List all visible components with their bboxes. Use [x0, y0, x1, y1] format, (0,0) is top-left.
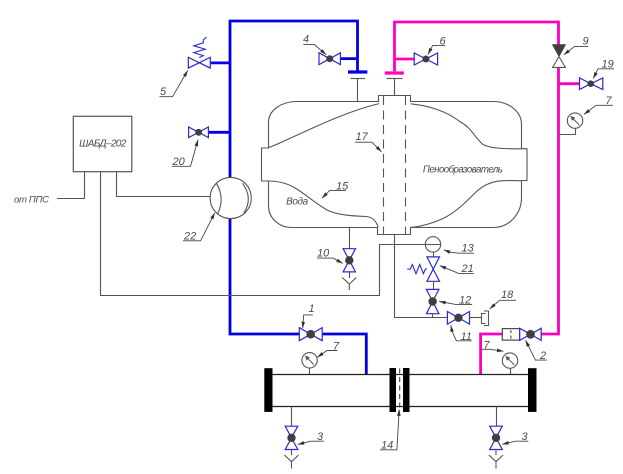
wire: tank top-left flange pipe [351, 79, 366, 102]
membrane dashed line 17 left [383, 96, 385, 234]
svg-text:13: 13 [462, 243, 475, 255]
svg-text:Вода: Вода [286, 196, 309, 207]
valve 10 (vertical ball valve) [343, 249, 355, 272]
wire: blue main water line (vertical left + top horizontal + tank inlet drop) [230, 21, 366, 375]
label 4 [303, 34, 326, 55]
bladder membrane curve 15 lower-left [269, 181, 379, 227]
valve 3 left (vertical ball valve) [285, 426, 298, 449]
wire: box right output to device 22 [117, 172, 211, 197]
wire: blue stub to valve 4 [340, 57, 357, 60]
label 13 [444, 243, 475, 255]
wire: tank top-center flange pipe [387, 79, 403, 96]
label 6 [428, 36, 447, 55]
bladder membrane curve upper-right [411, 104, 522, 149]
label 11 [451, 325, 472, 343]
manifold middle flange left [390, 368, 397, 412]
svg-text:5: 5 [160, 86, 167, 98]
bladder membrane curve 15 upper-left [268, 104, 379, 148]
tank left nozzle [262, 148, 270, 181]
valve 12 (vertical ball valve) [426, 289, 439, 313]
valve 19 (ball valve) [580, 78, 603, 90]
wire: magenta foam line (top horizontal + right vertical) [395, 22, 559, 375]
bladder membrane curve lower-right [410, 181, 521, 228]
manifold pipe bottom line [272, 406, 528, 408]
label 19 [593, 59, 614, 79]
label 5 [160, 71, 188, 99]
valve 20 (ball valve) [189, 127, 209, 138]
level indicator 13 [425, 237, 440, 252]
svg-text:от ППС: от ППС [14, 195, 49, 206]
label 20 [172, 140, 199, 168]
wire: valve 10 to drain [349, 272, 351, 278]
label 12 [439, 295, 472, 307]
svg-text:17: 17 [356, 131, 369, 143]
svg-text:1: 1 [309, 303, 315, 315]
wire: magenta stub to valve 6 [395, 58, 415, 61]
wire: tank bottom center pipe down and to valve 11 [395, 235, 448, 318]
valve 6 (ball valve) [414, 53, 437, 65]
manifold right cap [528, 368, 537, 412]
tank bottom neck [378, 227, 411, 235]
manifold middle dashed joint line [399, 369, 401, 412]
wire: valve 11 to coupling 18 [470, 317, 482, 319]
label 18 [490, 289, 516, 309]
label 14 [380, 410, 399, 452]
wire: blue stub to valve 20 [208, 131, 230, 134]
svg-text:4: 4 [303, 34, 309, 46]
hose coupling 18 [482, 311, 489, 326]
label 17 [355, 131, 382, 152]
label 10 [317, 248, 343, 264]
label 7 bottom left [317, 341, 340, 358]
wire: blue stub to valve 5 [210, 62, 230, 65]
svg-text:9: 9 [583, 36, 589, 48]
manifold pipe top line [272, 374, 528, 376]
wire: valve 21 to valve 12 [433, 281, 435, 289]
label 15 [322, 180, 349, 198]
wire + drain symbol below valve 3 left [284, 450, 298, 469]
control box ШАБД-202 [73, 116, 132, 171]
wire: circle 13 down to valve 21 [433, 252, 435, 257]
valve 11 (horizontal ball valve) [447, 312, 469, 325]
label 2 [526, 340, 547, 362]
label 3 right [502, 431, 528, 444]
wire: box middle output down and along bottom to level-gauge line [101, 172, 426, 296]
safety valve 5 with spring [188, 37, 210, 68]
gauge 7 top right [559, 113, 583, 135]
label 21 [440, 263, 474, 275]
valve 4 (ball valve) [319, 53, 340, 65]
gauge 7 bottom left [302, 353, 317, 375]
tank right nozzle [521, 149, 527, 181]
wire: manifold to right drain valve 3 [496, 407, 498, 427]
device 22 (ball/sphere on water line) [210, 177, 251, 218]
manifold left cap [264, 368, 272, 412]
valve 1 (ball valve on water feed) [299, 328, 322, 341]
label 3 left [298, 431, 324, 444]
manifold middle flange right [403, 368, 410, 412]
wire + drain symbol below valve 3 right [489, 450, 503, 469]
svg-text:18: 18 [501, 289, 514, 301]
blue flange bar on tank left inlet [348, 70, 367, 73]
wire: box left output to от ППС [57, 172, 85, 199]
strainer + valve 2 assembly [502, 328, 541, 340]
membrane dashed line 17 right [405, 96, 407, 234]
label 1 [303, 303, 315, 328]
tank top neck [379, 96, 411, 103]
label 9 [564, 36, 589, 55]
check valve 9 [553, 45, 566, 68]
wire: magenta stub to valve 19 [559, 82, 580, 85]
pressure regulator valve 21 [407, 257, 439, 281]
wire: valve 12 down to foam outlet line [432, 314, 434, 318]
svg-text:Пенообразователь: Пенообразователь [423, 164, 503, 175]
label 7 top right [584, 95, 613, 114]
wire: tank bottom water drain pipe to valve 10 [349, 228, 351, 249]
tank shell [269, 102, 522, 228]
svg-text:ШАБД–202: ШАБД–202 [79, 139, 127, 150]
magenta flange bar on tank right inlet [385, 71, 404, 74]
drain symbol below valve 10 [342, 278, 356, 291]
gauge 7 bottom right [502, 353, 517, 375]
label 22 [183, 213, 215, 243]
valve 3 right (vertical ball valve) [490, 426, 503, 449]
label 7 bottom right [481, 339, 503, 351]
wire: manifold to left drain valve 3 [291, 407, 293, 427]
